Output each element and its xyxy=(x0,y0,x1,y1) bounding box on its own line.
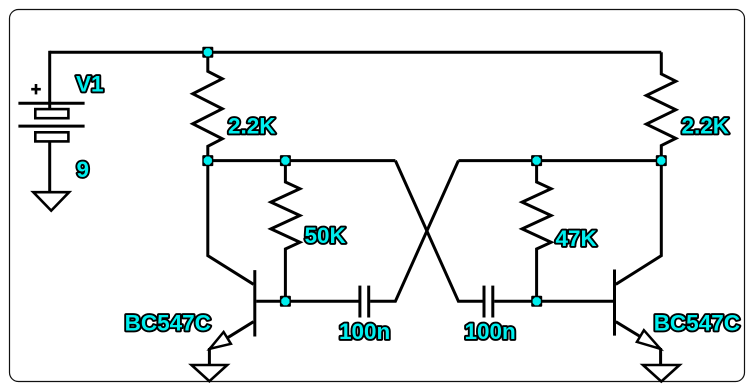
ground (battery) xyxy=(33,192,69,210)
wire cross-couple diagonal B (right rail to left capacitor) xyxy=(370,161,458,302)
resistor R 2.2K left xyxy=(193,52,223,160)
node junction right collector xyxy=(656,155,667,166)
node junction top rail xyxy=(202,47,213,58)
wire base row right (C2 to Q2 base) xyxy=(494,300,613,303)
node junction Q2 base xyxy=(531,296,542,307)
wire battery positive lead xyxy=(48,51,51,102)
resistor R 47K xyxy=(522,161,551,302)
wire Q1 emitter to ground xyxy=(208,348,211,365)
wire top rail Vcc xyxy=(50,51,662,54)
battery V1 xyxy=(18,103,84,141)
svg-text:2.2K: 2.2K xyxy=(682,114,730,139)
node junction 47K top xyxy=(531,155,542,166)
capacitor C 100n right xyxy=(484,286,493,318)
node junction left collector xyxy=(202,155,213,166)
node junction Q1 base xyxy=(280,296,291,307)
svg-text:BC547C: BC547C xyxy=(654,310,740,335)
svg-text:BC547C: BC547C xyxy=(125,310,211,335)
svg-text:9: 9 xyxy=(77,157,90,182)
wire cross-couple diagonal A (left rail to right capacitor) xyxy=(395,161,482,302)
svg-text:100n: 100n xyxy=(339,319,390,344)
ground (left) xyxy=(192,365,228,381)
resistor R 50K xyxy=(271,161,300,302)
wire collector rail left xyxy=(208,159,396,162)
capacitor C 100n left xyxy=(360,286,369,318)
battery plus sign xyxy=(31,84,41,94)
wire Q2 emitter to ground xyxy=(659,348,662,365)
svg-text:100n: 100n xyxy=(465,319,516,344)
resistor R 2.2K right xyxy=(646,52,676,160)
svg-text:2.2K: 2.2K xyxy=(228,114,276,139)
wire base row left (Q1 base to C1) xyxy=(256,300,358,303)
wire collector rail right xyxy=(458,159,661,162)
transistor Q1 BC547C (left, mirrored) xyxy=(208,161,255,349)
svg-text:50K: 50K xyxy=(305,223,347,248)
wire battery negative lead xyxy=(48,141,51,192)
svg-text:47K: 47K xyxy=(556,226,598,251)
transistor Q2 BC547C (right) xyxy=(615,161,662,349)
node junction 50K top xyxy=(280,155,291,166)
ground (right) xyxy=(643,365,680,382)
svg-text:V1: V1 xyxy=(76,72,104,97)
